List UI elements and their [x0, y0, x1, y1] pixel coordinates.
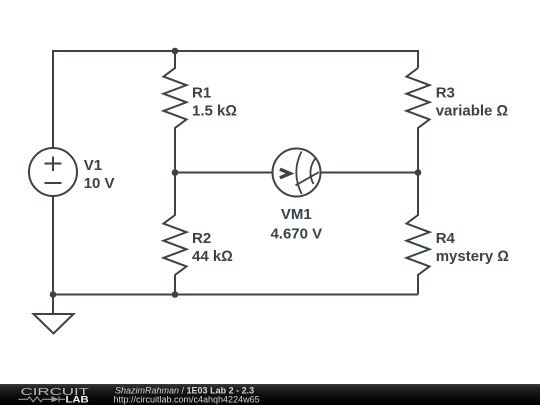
svg-text:LAB: LAB [66, 394, 89, 405]
svg-text:V1: V1 [84, 157, 102, 174]
svg-text:R3: R3 [436, 84, 455, 101]
svg-text:44 kΩ: 44 kΩ [192, 248, 233, 265]
svg-text:R2: R2 [192, 230, 211, 247]
svg-text:R1: R1 [192, 84, 211, 101]
svg-text:http://circuitlab.com/c4ahqh42: http://circuitlab.com/c4ahqh4224w65 [114, 395, 260, 405]
svg-text:4.670 V: 4.670 V [270, 225, 322, 242]
svg-text:VM1: VM1 [281, 206, 312, 223]
svg-text:1.5 kΩ: 1.5 kΩ [192, 103, 237, 120]
svg-text:variable Ω: variable Ω [436, 103, 508, 120]
svg-text:mystery Ω: mystery Ω [436, 248, 509, 265]
svg-text:R4: R4 [436, 230, 456, 247]
svg-text:10 V: 10 V [84, 175, 115, 192]
